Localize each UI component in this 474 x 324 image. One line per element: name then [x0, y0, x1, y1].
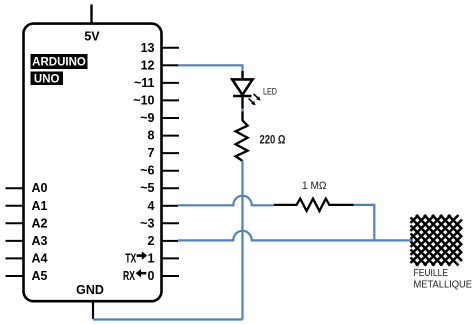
wire pin 2 with hop over node A, to foil [178, 231, 413, 241]
svg-text:A4: A4 [32, 251, 48, 265]
svg-text:LED: LED [263, 86, 277, 97]
metal foil sensor (crosshatch) [411, 216, 461, 265]
svg-text:A3: A3 [32, 234, 48, 248]
wire pin 12 to LED [178, 65, 243, 73]
resistor R1 value label 220 ohm [260, 135, 286, 147]
svg-text:13: 13 [141, 41, 155, 55]
svg-text:A2: A2 [32, 216, 48, 230]
5V label [84, 30, 100, 44]
svg-text:METALLIQUE: METALLIQUE [414, 279, 473, 291]
LED label [263, 86, 277, 97]
svg-text:8: 8 [148, 129, 155, 143]
ARDUINO badge [31, 54, 88, 69]
LED D1 [232, 71, 260, 109]
wire GND to node A (bottom blue wire) [93, 318, 243, 320]
svg-text:RX: RX [123, 269, 135, 283]
pin ~9 [140, 111, 179, 125]
svg-text:FEUILLE: FEUILLE [414, 267, 449, 279]
pin 7 [148, 146, 179, 160]
svg-text:A1: A1 [32, 199, 48, 213]
pin 12 [141, 58, 178, 72]
pin A5 [6, 269, 48, 283]
svg-text:~6: ~6 [140, 164, 154, 178]
svg-text:GND: GND [76, 283, 104, 297]
svg-text:~11: ~11 [134, 76, 155, 90]
arduino board U1 [24, 24, 162, 302]
svg-text:1: 1 [148, 251, 155, 265]
svg-text:ARDUINO: ARDUINO [32, 57, 86, 69]
svg-text:~10: ~10 [133, 93, 154, 107]
pin 13 [141, 41, 179, 55]
pin ~10 [133, 93, 179, 107]
pin 2 [148, 234, 178, 248]
svg-text:12: 12 [141, 58, 155, 72]
pin 8 [148, 129, 179, 143]
svg-text:TX: TX [125, 251, 136, 265]
wire R1 to GND (node A vertical wire) [241, 160, 243, 320]
resistor R2 1 Mohm [274, 199, 354, 211]
svg-text:A0: A0 [32, 181, 48, 195]
foil label FEUILLE METALLIQUE [414, 267, 473, 291]
svg-text:~3: ~3 [140, 216, 154, 230]
pin TX 1 [125, 251, 179, 265]
svg-text:5V: 5V [84, 30, 100, 44]
svg-text:4: 4 [148, 199, 155, 213]
wire R2 to pin-2 net [354, 205, 375, 240]
pin A0 [6, 181, 48, 195]
svg-text:~5: ~5 [140, 181, 154, 195]
pin ~5 [140, 181, 179, 195]
svg-text:220 Ω: 220 Ω [260, 135, 286, 147]
pin A2 [6, 216, 48, 230]
5V power wire [90, 5, 92, 24]
svg-text:0: 0 [148, 269, 155, 283]
pin RX 0 [123, 269, 179, 283]
pin ~3 [140, 216, 179, 230]
pin A4 [6, 251, 48, 265]
pin A1 [6, 199, 48, 213]
svg-text:~9: ~9 [140, 111, 154, 125]
pin A3 [6, 234, 48, 248]
svg-text:1 MΩ: 1 MΩ [302, 180, 327, 192]
GND wire stub [92, 301, 94, 319]
svg-text:7: 7 [148, 146, 155, 160]
svg-text:UNO: UNO [34, 74, 60, 86]
GND label [76, 283, 104, 297]
pin ~6 [140, 164, 179, 178]
svg-text:2: 2 [148, 234, 155, 248]
resistor R1 220 ohm [236, 112, 248, 161]
pin ~11 [134, 76, 179, 90]
wire pin 4 with hop over node A [178, 196, 274, 206]
resistor R2 value label 1 Mohm [302, 180, 327, 192]
pin 4 [148, 199, 178, 213]
wire LED to R1 [241, 108, 243, 113]
UNO badge [31, 72, 64, 86]
svg-text:A5: A5 [32, 269, 48, 283]
